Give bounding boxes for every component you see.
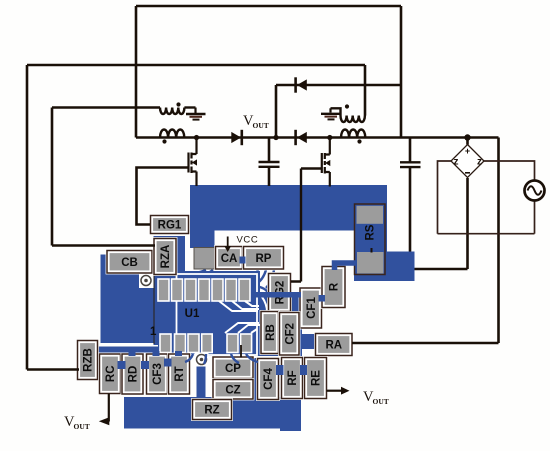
wire RG1 to Q1 gate bbox=[137, 168, 189, 225]
U1 bottom pad row bbox=[160, 334, 252, 353]
svg-text:CP: CP bbox=[225, 363, 241, 375]
trace RD-CF3 (over) bbox=[141, 361, 149, 369]
wire rail bottom to RA bbox=[352, 342, 499, 345]
svg-text:CZ: CZ bbox=[225, 384, 240, 396]
wire outer loop y65 bbox=[27, 64, 365, 67]
wire top loop right drop bbox=[400, 6, 403, 138]
AC source G1 bbox=[525, 181, 545, 201]
component label RB bbox=[260, 310, 280, 355]
wire left secondary to RZA bbox=[52, 108, 155, 246]
component label RG1 bbox=[149, 214, 190, 235]
trace CP-CZ column bbox=[252, 358, 260, 398]
component label RF bbox=[280, 356, 304, 400]
pcb left block bbox=[101, 255, 154, 344]
svg-text:RC: RC bbox=[105, 365, 117, 382]
svg-text:RP: RP bbox=[256, 253, 272, 265]
via near CP bbox=[195, 353, 209, 367]
wire outer loop left drop to RZB bbox=[27, 65, 79, 370]
component label RA bbox=[314, 332, 353, 357]
phase dot right primary bbox=[357, 139, 361, 143]
trace CF4-RF (over) bbox=[276, 365, 284, 375]
svg-text:RT: RT bbox=[174, 366, 186, 381]
pcb RZA strip bbox=[154, 236, 186, 345]
transformer T2 right secondary winding bbox=[331, 108, 365, 122]
VCC arrow bbox=[227, 237, 229, 247]
svg-text:OUT: OUT bbox=[253, 121, 269, 130]
svg-text:+: + bbox=[465, 146, 470, 156]
svg-text:z: z bbox=[477, 157, 482, 168]
component label CZ bbox=[212, 378, 255, 400]
svg-text:RB: RB bbox=[265, 324, 277, 341]
svg-text:CB: CB bbox=[121, 257, 138, 269]
U1 top pad row bbox=[158, 279, 250, 301]
U1 internal white fan traces bbox=[219, 297, 274, 333]
wire left secondary horizontal bbox=[52, 106, 160, 109]
trace CF3-RT (over) bbox=[164, 359, 172, 367]
wire U1 pad to CP bbox=[240, 345, 242, 358]
svg-text:U1: U1 bbox=[185, 308, 200, 320]
trace RG2 horizontal (over label) bbox=[254, 292, 301, 298]
component label RZB bbox=[76, 339, 99, 381]
diode D3 (left pointing, on rail) bbox=[297, 132, 307, 143]
component label RZA bbox=[153, 237, 178, 276]
svg-text:OUT: OUT bbox=[373, 397, 389, 406]
VOUT arrow right (from RE) bbox=[327, 390, 343, 392]
thin wires bridge/AC loop bbox=[438, 161, 535, 234]
svg-text:RS: RS bbox=[365, 224, 377, 240]
pad left of CA bbox=[194, 248, 215, 270]
pcb band left extension down to CA bbox=[190, 229, 215, 248]
component label RZ bbox=[191, 398, 233, 421]
bridge rectifier BR1 bbox=[451, 145, 484, 178]
svg-text:RF: RF bbox=[287, 370, 299, 385]
pcb top band bbox=[190, 185, 387, 231]
trace RC-RD (over) bbox=[118, 361, 126, 369]
component label CF1 bbox=[299, 287, 323, 330]
wire bridge top stub bbox=[466, 138, 469, 145]
svg-text:1: 1 bbox=[150, 326, 157, 338]
component label CF2 bbox=[278, 311, 300, 356]
trace RF-RE (over) bbox=[300, 365, 307, 375]
VOUT wire bottom left (from RC) bbox=[108, 394, 110, 422]
trace U1 fanout curves bbox=[156, 270, 274, 367]
wire RS to pad below bbox=[371, 248, 373, 253]
phase dot left secondary bbox=[176, 102, 180, 106]
svg-text:RA: RA bbox=[325, 340, 342, 352]
ground left bbox=[186, 108, 206, 120]
PCB copper pour regions (blue) bbox=[93, 185, 415, 431]
svg-text:CF1: CF1 bbox=[306, 297, 318, 319]
pcb right extension pad bbox=[385, 252, 415, 282]
wire thin vertical at U1 left (pin1 column) bbox=[153, 251, 155, 344]
pcb right mid base (RG2/RB/CF2) bbox=[254, 292, 302, 356]
svg-text:VCC: VCC bbox=[237, 235, 259, 246]
svg-text:CA: CA bbox=[221, 253, 238, 265]
component label CF4 bbox=[256, 357, 280, 401]
trace stubs bar to RD/CF3/RT tops bbox=[129, 351, 136, 356]
capacitor C2 (right) bbox=[400, 138, 421, 252]
ground right bbox=[321, 108, 341, 119]
component label RP bbox=[242, 245, 285, 270]
diode D1 (right pointing) bbox=[231, 132, 241, 143]
diode D2 (left pointing, upper branch) bbox=[297, 79, 307, 90]
svg-text:RZ: RZ bbox=[204, 405, 219, 417]
component label RS (border box with two pads over blue) bbox=[355, 204, 386, 275]
wire bridge bottom to PCB bbox=[415, 178, 468, 269]
phase dot left primary bbox=[162, 139, 166, 143]
wire rail right bend down bbox=[497, 138, 500, 344]
trace RT-CP strip bbox=[197, 364, 206, 400]
svg-text:z: z bbox=[454, 157, 459, 168]
trace RZB bar bbox=[93, 347, 190, 353]
wire Q2 gate to RG2 bbox=[291, 169, 322, 282]
svg-text:RZB: RZB bbox=[83, 348, 95, 372]
svg-text:CF2: CF2 bbox=[284, 323, 296, 345]
pcb patch CF2 to RA bbox=[297, 334, 317, 349]
via near CB bbox=[139, 273, 154, 288]
component label RE bbox=[303, 356, 328, 400]
wire upper diode branch bbox=[276, 84, 401, 87]
svg-text:R: R bbox=[329, 282, 341, 291]
pcb bottom band bbox=[124, 397, 298, 429]
component label RD bbox=[121, 353, 145, 396]
wire primary rail bbox=[136, 136, 499, 139]
U1 white outline bbox=[177, 274, 258, 355]
mosfet Q2 body arrow bbox=[325, 160, 330, 166]
junction dots on rail bbox=[194, 135, 199, 140]
svg-text:CF4: CF4 bbox=[263, 368, 275, 390]
wire y65 drop to right transformer secondary bbox=[364, 65, 367, 116]
svg-text:RD: RD bbox=[128, 366, 140, 383]
component label CF3 bbox=[145, 353, 169, 396]
mosfet Q2 bbox=[322, 138, 330, 187]
wire upper diode branch drop bbox=[275, 85, 278, 138]
svg-text:OUT: OUT bbox=[74, 422, 90, 431]
trace U1 bottom fan to boxes bbox=[185, 354, 258, 364]
mosfet Q1 bbox=[189, 138, 197, 187]
svg-text:RE: RE bbox=[311, 370, 323, 386]
transformer T1 left secondary winding bbox=[160, 108, 196, 115]
trace CF1-R (over label) bbox=[319, 295, 326, 302]
component label RT bbox=[167, 353, 191, 396]
phase dot right secondary bbox=[345, 104, 349, 108]
component label RG2 bbox=[267, 272, 292, 313]
svg-text:RZA: RZA bbox=[160, 245, 172, 269]
pcb U1 base bbox=[158, 271, 260, 356]
svg-text:CF3: CF3 bbox=[152, 363, 164, 385]
svg-text:RG1: RG1 bbox=[158, 220, 182, 232]
trace CA-RP (over) bbox=[240, 257, 246, 264]
wire top loop left drop to primary rail bbox=[135, 6, 138, 138]
mosfet Q1 body arrow bbox=[192, 159, 197, 165]
capacitor C1 (left) bbox=[259, 138, 280, 187]
pcb bottom right part bbox=[280, 399, 301, 431]
pcb RS column bbox=[354, 228, 387, 281]
component label CP bbox=[212, 356, 255, 380]
trace R to RS elbow (over) bbox=[335, 263, 358, 270]
component label R bbox=[321, 265, 347, 309]
transformer T2 right primary winding bbox=[341, 130, 365, 138]
component label CA bbox=[214, 245, 244, 270]
wire top loop horizontal bbox=[136, 5, 401, 8]
transformer T1 left primary winding bbox=[160, 130, 184, 138]
component label RC bbox=[98, 353, 122, 395]
component label CB bbox=[106, 249, 154, 274]
pcb strip below RS pad bbox=[356, 274, 386, 282]
